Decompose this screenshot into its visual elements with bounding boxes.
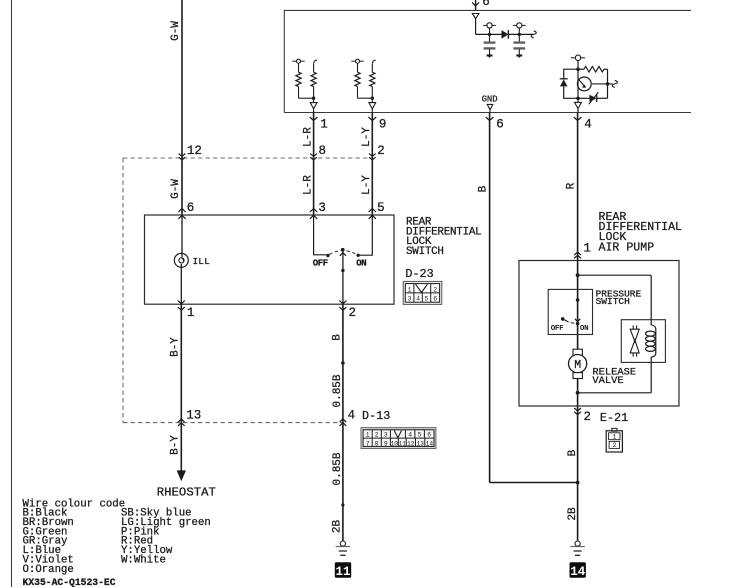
- svg-text:2: 2: [349, 306, 357, 320]
- svg-text:1: 1: [320, 117, 328, 131]
- svg-text:D-13: D-13: [362, 409, 390, 423]
- svg-text:2: 2: [612, 442, 616, 449]
- svg-text:KX35-AC-Q1523-EC: KX35-AC-Q1523-EC: [23, 577, 116, 587]
- svg-text:6: 6: [427, 432, 431, 439]
- svg-text:1: 1: [583, 241, 591, 255]
- svg-text:GND: GND: [482, 94, 498, 104]
- svg-text:13: 13: [186, 408, 201, 422]
- svg-text:W:White: W:White: [121, 554, 166, 566]
- svg-text:12: 12: [187, 144, 202, 158]
- svg-text:9: 9: [384, 440, 388, 447]
- svg-text:1: 1: [366, 432, 370, 439]
- svg-text:13: 13: [416, 440, 424, 447]
- svg-text:SWITCH: SWITCH: [406, 246, 444, 258]
- svg-text:8: 8: [319, 144, 327, 158]
- svg-text:SWITCH: SWITCH: [596, 296, 630, 307]
- svg-text:11: 11: [398, 440, 406, 447]
- svg-text:4: 4: [416, 296, 420, 303]
- svg-text:4: 4: [348, 408, 356, 422]
- svg-text:R: R: [566, 182, 578, 189]
- svg-text:9: 9: [379, 117, 387, 131]
- svg-text:3: 3: [318, 201, 326, 215]
- svg-text:0.85B: 0.85B: [332, 374, 344, 407]
- svg-text:1: 1: [408, 286, 412, 293]
- svg-text:B: B: [332, 334, 344, 341]
- svg-text:3: 3: [408, 296, 412, 303]
- svg-text:8: 8: [375, 440, 379, 447]
- svg-text:5: 5: [377, 201, 385, 215]
- svg-text:6: 6: [496, 117, 504, 131]
- svg-text:B: B: [567, 449, 579, 456]
- svg-text:2: 2: [433, 286, 437, 293]
- svg-text:G-W: G-W: [170, 179, 182, 199]
- svg-text:RHEOSTAT: RHEOSTAT: [157, 486, 216, 500]
- svg-text:L-Y: L-Y: [361, 175, 373, 195]
- svg-text:ILL: ILL: [193, 257, 210, 267]
- svg-text:B-Y: B-Y: [170, 435, 182, 455]
- svg-text:G-W: G-W: [170, 21, 182, 41]
- svg-text:E-21: E-21: [600, 411, 628, 425]
- svg-text:1: 1: [187, 306, 195, 320]
- svg-text:OFF: OFF: [313, 259, 328, 269]
- svg-text:2: 2: [375, 432, 379, 439]
- svg-text:L-Y: L-Y: [361, 127, 373, 147]
- svg-text:6: 6: [187, 201, 195, 215]
- svg-text:5: 5: [425, 296, 429, 303]
- svg-text:3: 3: [384, 432, 388, 439]
- svg-text:6: 6: [482, 0, 490, 9]
- svg-text:14: 14: [570, 565, 586, 579]
- svg-text:OFF: OFF: [551, 325, 564, 333]
- svg-text:7: 7: [366, 440, 370, 447]
- svg-text:10: 10: [391, 440, 399, 447]
- svg-text:2: 2: [584, 410, 592, 424]
- svg-text:11: 11: [335, 565, 350, 579]
- svg-text:B: B: [478, 185, 490, 192]
- svg-text:O:Orange: O:Orange: [23, 564, 74, 576]
- svg-text:2: 2: [377, 144, 385, 158]
- svg-text:0.85B: 0.85B: [332, 452, 344, 485]
- svg-text:L-R: L-R: [302, 127, 314, 147]
- svg-text:4: 4: [408, 432, 412, 439]
- svg-text:6: 6: [433, 296, 437, 303]
- svg-text:L-R: L-R: [302, 175, 314, 195]
- svg-text:2B: 2B: [332, 520, 344, 534]
- svg-text:D-23: D-23: [405, 267, 433, 281]
- svg-text:M: M: [574, 359, 581, 372]
- svg-text:1: 1: [612, 434, 616, 441]
- svg-text:ON: ON: [580, 325, 588, 333]
- svg-text:14: 14: [426, 440, 434, 447]
- svg-text:12: 12: [407, 440, 415, 447]
- svg-text:VALVE: VALVE: [592, 375, 623, 387]
- svg-text:ON: ON: [356, 259, 366, 269]
- svg-text:4: 4: [584, 117, 592, 131]
- svg-text:B-Y: B-Y: [170, 337, 182, 357]
- svg-text:5: 5: [418, 432, 422, 439]
- svg-text:AIR PUMP: AIR PUMP: [599, 242, 655, 255]
- svg-text:2B: 2B: [567, 507, 579, 521]
